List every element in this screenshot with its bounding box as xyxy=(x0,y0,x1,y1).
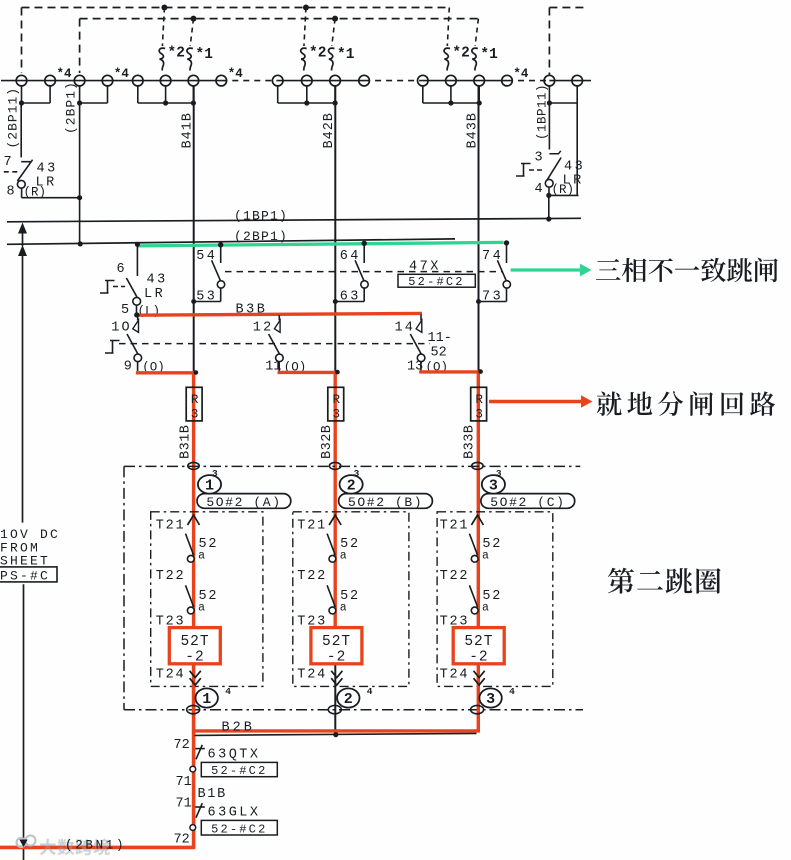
svg-text:12: 12 xyxy=(253,321,274,336)
svg-text:(2BN1): (2BN1) xyxy=(65,839,126,853)
svg-text:-2: -2 xyxy=(469,649,488,665)
svg-text:T22: T22 xyxy=(297,569,327,584)
svg-text:*4: *4 xyxy=(57,67,73,81)
svg-text:R: R xyxy=(475,393,483,407)
svg-text:(2BP1): (2BP1) xyxy=(64,81,79,134)
svg-text:74: 74 xyxy=(482,249,503,264)
svg-text:3: 3 xyxy=(475,408,483,422)
svg-text:-2: -2 xyxy=(327,649,346,665)
svg-text:(1BP1): (1BP1) xyxy=(234,209,288,224)
svg-text:B33B: B33B xyxy=(463,425,478,459)
svg-text:54: 54 xyxy=(196,249,217,264)
svg-text:T22: T22 xyxy=(440,569,470,584)
svg-text:*2: *2 xyxy=(168,46,185,62)
svg-text:B2B: B2B xyxy=(222,721,255,736)
svg-text:14: 14 xyxy=(395,321,416,336)
svg-text:1: 1 xyxy=(205,478,214,495)
svg-text:52T: 52T xyxy=(464,634,493,650)
svg-text:B3B: B3B xyxy=(236,303,268,318)
svg-text:LR: LR xyxy=(144,287,165,302)
svg-text:9: 9 xyxy=(124,360,132,375)
svg-text:5O#2 (B): 5O#2 (B) xyxy=(348,495,423,510)
svg-text:72: 72 xyxy=(174,738,190,753)
svg-text:1: 1 xyxy=(202,691,211,708)
svg-text:T21: T21 xyxy=(440,519,470,534)
svg-text:3: 3 xyxy=(489,478,498,495)
svg-text:43: 43 xyxy=(564,160,585,175)
svg-text:52-#C2: 52-#C2 xyxy=(211,764,267,778)
svg-text:5: 5 xyxy=(121,303,129,318)
svg-text:47X: 47X xyxy=(409,260,441,275)
svg-text:a: a xyxy=(482,601,489,614)
svg-text:71: 71 xyxy=(176,797,192,812)
svg-text:*4: *4 xyxy=(513,67,529,81)
svg-text:(1BP11): (1BP11) xyxy=(536,84,550,140)
svg-text:63QTX: 63QTX xyxy=(208,747,261,762)
svg-text:*1: *1 xyxy=(480,47,498,63)
svg-text:(2BP1): (2BP1) xyxy=(234,229,288,244)
svg-text:*1: *1 xyxy=(337,47,355,63)
svg-text:B1B: B1B xyxy=(198,787,227,802)
svg-text:B31B: B31B xyxy=(179,425,194,459)
svg-text:3: 3 xyxy=(212,468,218,479)
svg-text:T22: T22 xyxy=(156,569,186,584)
svg-text:3: 3 xyxy=(332,408,340,422)
svg-text:PS-#C: PS-#C xyxy=(0,568,50,583)
svg-text:52-#C2: 52-#C2 xyxy=(408,275,464,289)
svg-text:5O#2 (A): 5O#2 (A) xyxy=(206,495,281,510)
svg-text:43: 43 xyxy=(147,273,168,288)
svg-text:T24: T24 xyxy=(440,668,470,683)
svg-text:B32B: B32B xyxy=(320,425,335,459)
svg-text:6: 6 xyxy=(117,262,125,277)
svg-text:R: R xyxy=(191,393,199,407)
svg-text:*4: *4 xyxy=(228,67,244,81)
svg-text:52T: 52T xyxy=(180,634,209,650)
svg-text:a: a xyxy=(340,550,347,563)
svg-text:R: R xyxy=(332,393,340,407)
svg-text:T24: T24 xyxy=(297,668,327,683)
svg-text:3: 3 xyxy=(486,691,495,708)
svg-text:4: 4 xyxy=(367,686,373,697)
svg-text:a: a xyxy=(340,601,347,614)
svg-text:4: 4 xyxy=(509,686,515,697)
svg-text:7: 7 xyxy=(4,155,12,170)
svg-text:*4: *4 xyxy=(114,67,130,81)
svg-text:3: 3 xyxy=(191,408,199,422)
svg-text:*2: *2 xyxy=(309,46,326,62)
svg-text:*2: *2 xyxy=(452,46,469,62)
svg-text:11-: 11- xyxy=(428,331,452,346)
svg-text:T21: T21 xyxy=(156,519,186,534)
svg-text:8: 8 xyxy=(7,185,15,200)
svg-text:4: 4 xyxy=(535,182,543,197)
svg-text:T24: T24 xyxy=(156,668,186,683)
svg-text:a: a xyxy=(198,601,205,614)
svg-text:1O: 1O xyxy=(111,321,132,336)
svg-text:-2: -2 xyxy=(185,649,204,665)
svg-text:43: 43 xyxy=(37,162,58,177)
svg-text:52T: 52T xyxy=(322,634,351,650)
svg-text:63GLX: 63GLX xyxy=(208,806,261,821)
svg-text:3: 3 xyxy=(535,151,543,166)
svg-text:a: a xyxy=(198,550,205,563)
svg-text:a: a xyxy=(482,550,489,563)
svg-text:2: 2 xyxy=(347,478,356,495)
svg-text:64: 64 xyxy=(340,249,361,264)
svg-text:72: 72 xyxy=(174,833,190,848)
svg-text:(2BP11): (2BP11) xyxy=(6,87,21,149)
svg-text:71: 71 xyxy=(176,775,192,790)
svg-text:*1: *1 xyxy=(196,47,214,63)
svg-text:3: 3 xyxy=(354,468,360,479)
svg-text:3: 3 xyxy=(496,468,502,479)
svg-text:T21: T21 xyxy=(297,519,327,534)
svg-text:2: 2 xyxy=(344,691,353,708)
svg-text:5O#2 (C): 5O#2 (C) xyxy=(490,495,565,510)
svg-text:52: 52 xyxy=(431,346,447,361)
svg-text:4: 4 xyxy=(225,686,231,697)
svg-text:52-#C2: 52-#C2 xyxy=(211,822,267,836)
